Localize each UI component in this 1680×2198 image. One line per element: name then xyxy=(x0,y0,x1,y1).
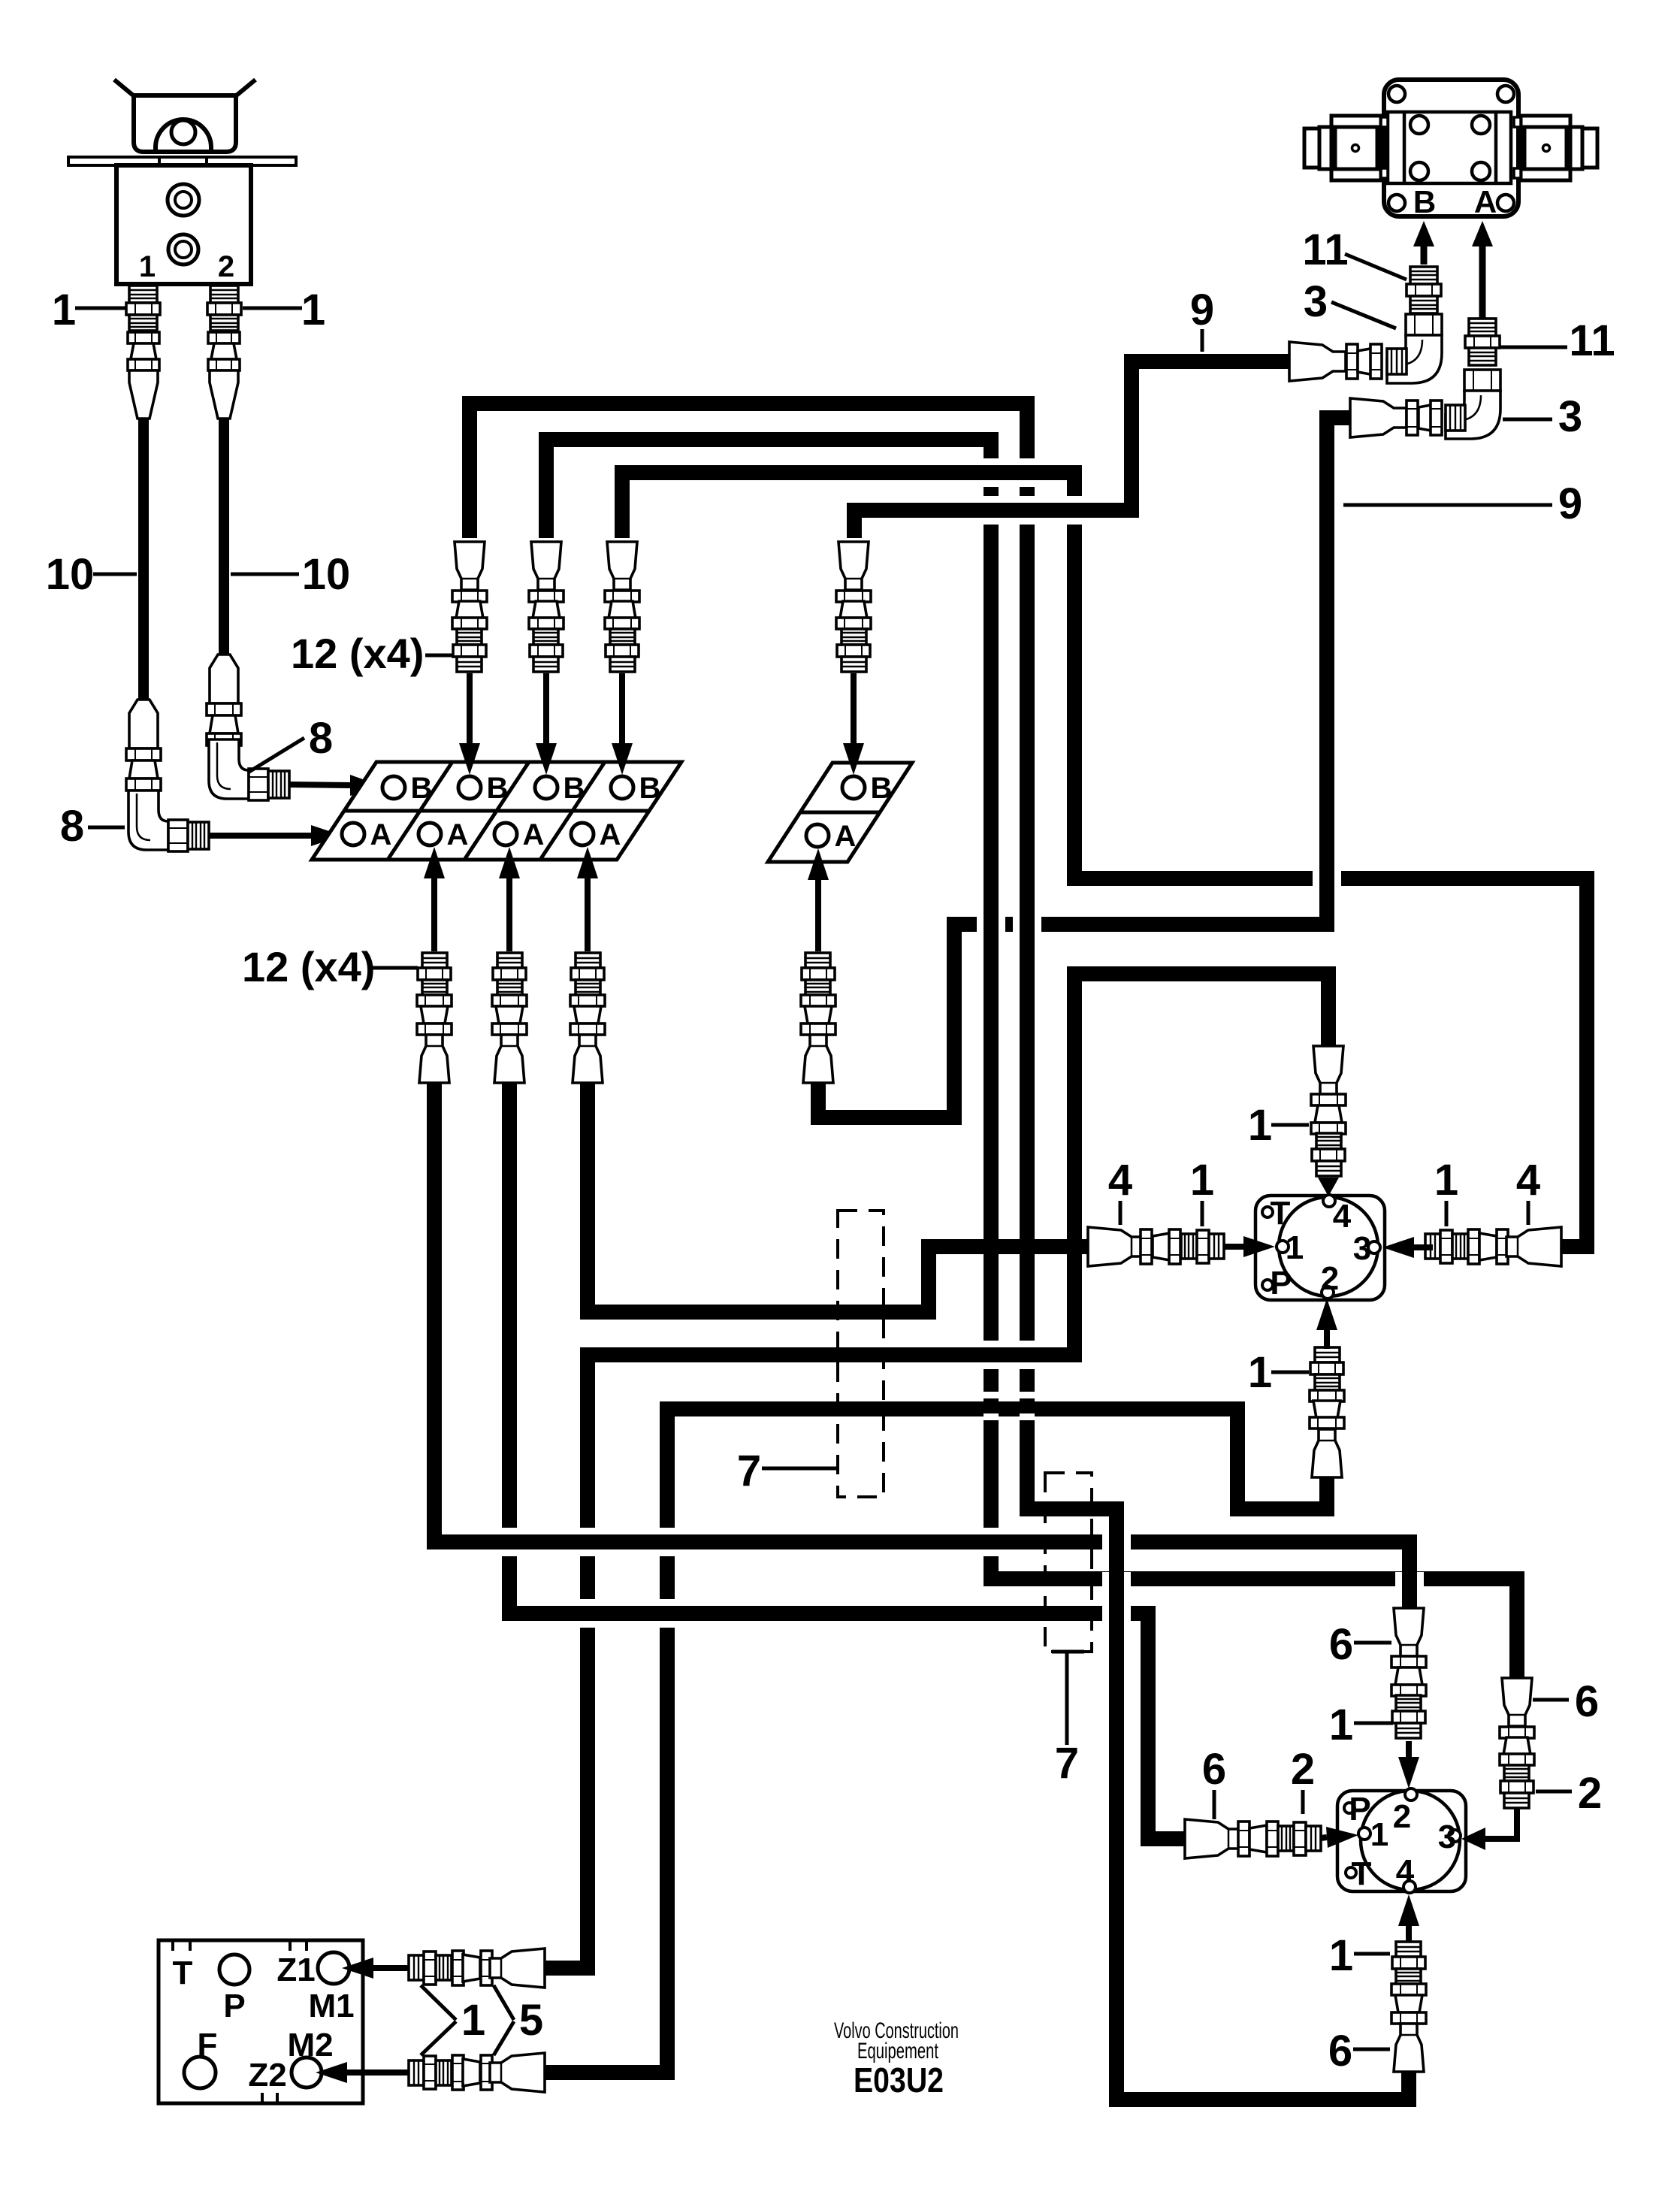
label 9 (hose 9a) xyxy=(1201,329,1204,352)
block gauge port upper xyxy=(168,184,199,216)
hose end on hose 10 right xyxy=(207,655,241,745)
grapple motor plate xyxy=(1384,80,1518,216)
svg-text:A: A xyxy=(600,818,621,851)
valve2 bolt hole T xyxy=(1346,1867,1356,1878)
mounting plate xyxy=(68,157,296,165)
motor bolt hole xyxy=(1388,195,1405,211)
label 6 (valve2 top) xyxy=(1354,1641,1391,1645)
label 1 (valve2 top) xyxy=(1354,1722,1393,1725)
motor bolt hole xyxy=(1497,86,1514,102)
label 3 (motor A elbow) xyxy=(1503,418,1552,422)
arrow into valve2 port 4 xyxy=(1406,1926,1412,1942)
dashed hose sleeve 7 (upper) xyxy=(838,1211,884,1497)
manifold port A4 xyxy=(571,823,594,845)
elbow 3 at motor port A xyxy=(1446,370,1500,439)
svg-text:A: A xyxy=(835,820,857,853)
svg-text:2: 2 xyxy=(218,250,234,283)
hose end of hose 9a xyxy=(1289,342,1382,381)
fitting 12 below manifold port A at x=678 xyxy=(492,953,527,1083)
manifold port B4 xyxy=(611,776,633,799)
elbow 3 at motor port B xyxy=(1387,314,1442,383)
dashed hose sleeve 7 (lower) xyxy=(1045,1473,1092,1652)
motor bolt hole xyxy=(1388,86,1405,102)
elbow nipple 8 (upper right) xyxy=(209,739,289,800)
svg-text:3: 3 xyxy=(1304,277,1328,326)
svg-text:M1: M1 xyxy=(308,1988,354,2024)
fitting 12 below manifold port A at x=782 xyxy=(570,953,605,1083)
bracket pivot hole xyxy=(171,120,195,144)
label 4 (valve1 left) xyxy=(1119,1201,1123,1225)
block port M1 xyxy=(318,1952,349,1984)
fitting 12 above aux manifold port B xyxy=(836,542,871,672)
valve1 port 1 xyxy=(1277,1241,1289,1253)
block edge ticks xyxy=(173,1940,307,2103)
fitting 12 above manifold port B at x=828 xyxy=(605,542,639,672)
wire hose 10 right: block port 2 down xyxy=(219,415,229,658)
svg-text:6: 6 xyxy=(1575,1677,1599,1726)
wire hose M2: block port M2 to rotator valve1 port2 xyxy=(542,1409,1327,2073)
svg-text:P: P xyxy=(1349,1791,1370,1828)
bracket on control block xyxy=(114,80,255,154)
manifold port B2 xyxy=(458,776,481,799)
svg-text:1: 1 xyxy=(1248,1101,1272,1150)
valve2 bolt hole P xyxy=(1344,1803,1355,1813)
arrow into valve1 port 4 xyxy=(1325,1175,1331,1181)
clamp tab xyxy=(159,157,207,168)
svg-text:B: B xyxy=(564,772,585,805)
fitting 1 above valve1 port 4 xyxy=(1311,1046,1346,1176)
valve2 port 2 xyxy=(1405,1788,1417,1800)
arrow into port A x=678 xyxy=(506,878,512,951)
svg-text:10: 10 xyxy=(302,550,351,599)
arrow into block port M1 xyxy=(373,1965,409,1971)
svg-text:B: B xyxy=(411,772,433,805)
svg-text:9: 9 xyxy=(1558,479,1582,528)
svg-text:B: B xyxy=(871,772,893,805)
svg-text:2: 2 xyxy=(1393,1798,1411,1835)
svg-text:4: 4 xyxy=(1333,1198,1352,1235)
wire hose 4: manifold cell2 port A to rotator valve2 port2 xyxy=(434,1080,1410,1610)
block gauge port lower xyxy=(168,234,198,265)
arrow into valve1 port 3 xyxy=(1414,1244,1433,1250)
svg-text:2: 2 xyxy=(1321,1260,1339,1297)
wire hose 3: manifold cell4 port B to rotator valve1 port3 xyxy=(622,473,1587,1247)
wire hose 1: manifold cell2 port B to rotator valve2 port4 xyxy=(470,404,1409,2100)
fitting 12 above manifold port B at x=727 xyxy=(529,542,564,672)
adapter 11 at motor port B xyxy=(1407,267,1441,313)
label 1 (valve1 top) xyxy=(1271,1123,1309,1127)
label 1 (valve1 bottom) xyxy=(1271,1371,1309,1374)
svg-text:1: 1 xyxy=(461,1996,485,2045)
svg-text:2: 2 xyxy=(1291,1745,1315,1794)
wire hose 10 left: block port 1 down xyxy=(138,415,149,703)
wire hose 9a: aux manifold port B to motor port B xyxy=(854,361,1291,538)
svg-text:11: 11 xyxy=(1302,225,1348,274)
fitting 1 on hose 10 left (at block port 1) xyxy=(126,286,160,419)
hammer valve block xyxy=(159,1940,363,2103)
svg-text:5: 5 xyxy=(519,1996,543,2045)
wire hose 5: manifold cell3 port A to rotator valve2 port1 xyxy=(509,1080,1185,1839)
label 12 (x4) lower xyxy=(372,966,418,970)
label 1 (valve1 left) xyxy=(1201,1201,1204,1226)
fitting 4+1 on hose into valve1 port 1 xyxy=(1088,1227,1224,1266)
arrow into port A x=578 xyxy=(431,878,437,951)
label 10 (right hose) xyxy=(231,573,299,576)
label 2 (valve2 right) xyxy=(1536,1790,1572,1794)
label 2 (valve2 left) xyxy=(1301,1790,1305,1814)
rotator valve 1 plate xyxy=(1255,1196,1385,1300)
motor body band xyxy=(1388,112,1511,183)
svg-text:A: A xyxy=(370,818,392,851)
label 7 (upper) xyxy=(762,1467,836,1471)
valve1 bolt hole T xyxy=(1262,1207,1273,1217)
arrow into valve2 port 2 xyxy=(1406,1741,1412,1757)
label 10 (left hose) xyxy=(93,573,137,576)
svg-text:1: 1 xyxy=(1329,1701,1353,1749)
svg-text:1: 1 xyxy=(1370,1816,1388,1853)
label 9 (hose 9b) xyxy=(1343,503,1552,507)
svg-text:A: A xyxy=(1474,184,1497,219)
aux coupler manifold (1 section) xyxy=(768,763,912,862)
fitting 12 below aux manifold port A xyxy=(801,953,835,1083)
fitting 1+4 on hose into valve1 port 3 xyxy=(1425,1227,1561,1266)
block port P xyxy=(219,1955,249,1985)
block port M2 xyxy=(292,2057,322,2088)
arrow into aux port B xyxy=(851,673,857,743)
arrow into motor port A xyxy=(1479,246,1486,319)
svg-text:12 (x4): 12 (x4) xyxy=(291,630,424,677)
fitting 12 below manifold port A at x=578 xyxy=(417,953,452,1083)
label 1 (valve1 right) xyxy=(1445,1201,1449,1226)
svg-text:6: 6 xyxy=(1328,2027,1352,2076)
label 1 (block fittings) xyxy=(421,1985,456,2020)
svg-text:B: B xyxy=(639,772,661,805)
arrow into manifold port A1 xyxy=(209,833,311,839)
quick-coupler manifold (4 sections) xyxy=(312,762,681,860)
svg-text:3: 3 xyxy=(1353,1230,1371,1267)
svg-text:7: 7 xyxy=(1055,1739,1079,1788)
fitting 1+5 on hose into block port M1 xyxy=(409,1949,545,1988)
svg-text:12 (x4): 12 (x4) xyxy=(242,943,375,990)
aux manifold port A xyxy=(806,824,829,847)
fitting 6+1 above valve2 port 2 xyxy=(1391,1608,1426,1738)
wire hose M1: block port M1 to rotator valve1 port4 xyxy=(542,974,1328,1968)
svg-text:1: 1 xyxy=(1248,1348,1272,1397)
arrow into motor port B xyxy=(1421,246,1428,265)
svg-text:1: 1 xyxy=(52,286,76,334)
motor right cylinder xyxy=(1514,116,1597,180)
valve2 port 1 xyxy=(1358,1828,1370,1840)
rotator valve 2 plate xyxy=(1337,1791,1466,1891)
arrow into port A x=782 xyxy=(585,878,591,951)
svg-text:Z1: Z1 xyxy=(276,1952,315,1988)
elbow nipple 8 (lower left) xyxy=(128,791,209,851)
motor left cylinder xyxy=(1304,116,1388,180)
valve1 port 2 xyxy=(1322,1286,1334,1299)
svg-text:Z2: Z2 xyxy=(248,2057,286,2094)
svg-text:1: 1 xyxy=(1329,1931,1353,1980)
fitting 1 on hose 10 right (at block port 2) xyxy=(207,286,241,419)
fitting 1+5 on hose into block port M2 xyxy=(409,2053,545,2092)
motor bolt hole xyxy=(1497,195,1514,211)
svg-text:4: 4 xyxy=(1396,1853,1415,1890)
svg-text:3: 3 xyxy=(1558,392,1582,441)
manifold port A1 xyxy=(342,823,364,845)
valve1 port 4 xyxy=(1323,1195,1335,1207)
arrow into valve1 port 1 xyxy=(1224,1244,1243,1250)
svg-text:1: 1 xyxy=(1286,1229,1304,1266)
valve2 port 3 xyxy=(1449,1830,1461,1842)
svg-text:A: A xyxy=(523,818,545,851)
arrow into aux port A xyxy=(815,880,821,951)
label 1 (right fitting) xyxy=(243,307,302,310)
svg-text:7: 7 xyxy=(737,1447,761,1495)
arrow into block port M2 xyxy=(347,2070,409,2076)
label 3 (motor B elbow) xyxy=(1331,302,1396,328)
label 12 (x4) upper xyxy=(425,654,454,658)
hose end on hose 10 left xyxy=(126,700,161,791)
label 8 (upper elbow) xyxy=(248,738,304,772)
arrow into port B x=727 xyxy=(543,673,549,743)
arrow into port B x=828 xyxy=(619,673,625,743)
motor port hole xyxy=(1410,116,1428,134)
svg-text:1: 1 xyxy=(1190,1156,1214,1205)
wire crossing breaks xyxy=(502,458,1424,1628)
label 1 (valve2 bottom) xyxy=(1354,1952,1390,1956)
svg-text:E03U2: E03U2 xyxy=(854,2060,944,2100)
aux manifold port B xyxy=(842,776,865,799)
svg-text:B: B xyxy=(487,772,509,805)
svg-text:6: 6 xyxy=(1202,1745,1226,1794)
wire hose 6: manifold cell4 port A to rotator valve1 port1 xyxy=(588,1080,1089,1312)
motor port hole xyxy=(1410,162,1428,180)
fitting 1+6 below valve2 port 4 xyxy=(1391,1942,1426,2072)
block port F xyxy=(184,2057,216,2088)
svg-text:9: 9 xyxy=(1190,286,1214,334)
label 11 (motor B) xyxy=(1345,254,1407,280)
rotator valve 2 body circle xyxy=(1361,1791,1460,1890)
svg-text:T: T xyxy=(173,1955,193,1991)
svg-text:2: 2 xyxy=(1578,1769,1602,1818)
svg-text:1: 1 xyxy=(1434,1156,1458,1205)
label 5 (block hose ends) xyxy=(494,1985,514,2020)
valve1 bolt hole P xyxy=(1262,1280,1273,1290)
manifold port B3 xyxy=(535,776,557,799)
motor port hole xyxy=(1472,162,1490,180)
label 1 (left fitting) xyxy=(75,307,126,310)
fitting 6+2 right of valve2 xyxy=(1500,1678,1534,1808)
arrow into valve1 port 2 xyxy=(1324,1330,1330,1349)
fitting 1 below valve1 port 2 xyxy=(1310,1347,1344,1477)
label 6 (valve2 right) xyxy=(1533,1698,1569,1702)
svg-text:4: 4 xyxy=(1108,1156,1132,1205)
manifold port A3 xyxy=(494,823,517,845)
arrow into valve2 port 1 xyxy=(1321,1837,1327,1838)
label 7 (lower) xyxy=(1052,1650,1084,1654)
arrow into manifold port B1 xyxy=(289,785,350,785)
svg-text:3: 3 xyxy=(1438,1819,1456,1855)
svg-text:P: P xyxy=(223,1988,245,2024)
svg-text:10: 10 xyxy=(46,550,95,599)
hose end of hose 9b xyxy=(1350,398,1442,437)
svg-text:A: A xyxy=(447,818,469,851)
svg-text:B: B xyxy=(1413,184,1436,219)
valve1 port 3 xyxy=(1368,1241,1380,1253)
adapter 11 at motor port A xyxy=(1465,319,1500,365)
arrow into valve2 port 3 xyxy=(1485,1808,1517,1839)
label 6 (valve2 bottom) xyxy=(1353,2048,1390,2051)
motor port hole xyxy=(1472,116,1490,134)
svg-text:8: 8 xyxy=(60,802,84,851)
control block body xyxy=(116,165,251,284)
svg-text:8: 8 xyxy=(309,714,333,763)
label 8 (lower elbow) xyxy=(88,826,125,830)
svg-text:1: 1 xyxy=(139,250,156,283)
fitting 6+2 on hose into valve2 port 1 xyxy=(1185,1819,1321,1858)
svg-text:4: 4 xyxy=(1516,1156,1540,1205)
rotator valve 1 body circle xyxy=(1279,1197,1378,1296)
valve2 port 4 xyxy=(1404,1881,1416,1893)
svg-text:T: T xyxy=(1352,1855,1372,1892)
svg-text:1: 1 xyxy=(301,286,325,334)
fitting 12 above manifold port B at x=625 xyxy=(452,542,487,672)
manifold port A2 xyxy=(418,823,441,845)
label 4 (valve1 right) xyxy=(1527,1201,1530,1225)
arrow into port B x=625 xyxy=(467,673,473,743)
label 6 (valve2 left) xyxy=(1213,1790,1216,1819)
svg-text:P: P xyxy=(1270,1265,1292,1302)
manifold port B1 xyxy=(382,776,405,799)
wire hose 9b: aux manifold port A to motor port A xyxy=(818,418,1352,1117)
wire hose 2: manifold cell3 port B to rotator valve2 port3 xyxy=(546,440,1517,1679)
svg-text:11: 11 xyxy=(1569,316,1615,365)
label 11 (motor A) xyxy=(1500,346,1567,349)
svg-text:6: 6 xyxy=(1329,1620,1353,1669)
svg-text:T: T xyxy=(1271,1195,1291,1232)
